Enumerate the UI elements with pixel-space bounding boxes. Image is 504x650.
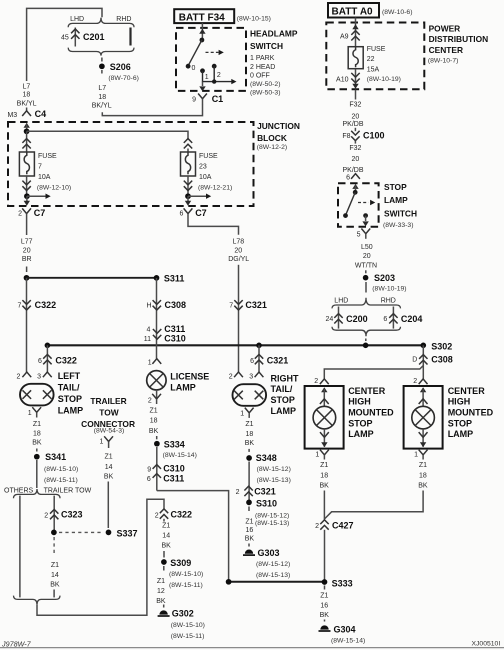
svg-text:7: 7 xyxy=(229,302,233,309)
svg-text:(8W-12-2): (8W-12-2) xyxy=(257,144,287,151)
svg-text:6: 6 xyxy=(147,476,151,483)
brace upper LHD/RHD (C200/C204) xyxy=(332,298,401,309)
svg-text:S309: S309 xyxy=(170,558,191,568)
svg-text:C4: C4 xyxy=(35,109,47,119)
wire right center lamp ground joining left xyxy=(325,491,423,519)
splice junction to S337 xyxy=(51,530,57,536)
svg-text:C311: C311 xyxy=(163,474,184,484)
svg-text:0: 0 xyxy=(192,65,196,72)
svg-text:C308: C308 xyxy=(431,355,453,365)
stop lamp switch contacts xyxy=(352,184,358,189)
svg-text:PK/DB: PK/DB xyxy=(342,167,363,174)
connector C100 pin F8 xyxy=(351,131,359,141)
svg-text:2: 2 xyxy=(148,397,152,404)
svg-text:Z1: Z1 xyxy=(320,462,328,469)
splice S348 xyxy=(246,455,252,461)
svg-text:(8W-15-14): (8W-15-14) xyxy=(331,638,365,645)
svg-text:(8W-10-6): (8W-10-6) xyxy=(382,9,412,16)
svg-text:CENTER: CENTER xyxy=(348,386,386,396)
wire entry arrow into junction block xyxy=(24,123,30,128)
svg-text:XJ00510I: XJ00510I xyxy=(472,641,501,648)
svg-text:S310: S310 xyxy=(256,499,277,509)
svg-text:LICENSE: LICENSE xyxy=(170,372,209,382)
svg-text:MOUNTED: MOUNTED xyxy=(348,408,394,418)
splice S310 xyxy=(246,500,252,506)
component power distribution center box xyxy=(326,23,424,90)
svg-text:6: 6 xyxy=(250,358,254,365)
svg-text:L7: L7 xyxy=(98,85,106,92)
svg-text:1: 1 xyxy=(240,410,244,417)
node fuse 23 output with branch arrow xyxy=(185,193,191,199)
svg-text:(8W-15-13): (8W-15-13) xyxy=(257,477,291,484)
wire RHD branch bar xyxy=(129,28,131,46)
svg-text:C200: C200 xyxy=(346,314,368,324)
wire others branch xyxy=(19,496,21,598)
svg-text:4: 4 xyxy=(146,327,150,334)
svg-text:(8W-15-12): (8W-15-12) xyxy=(257,466,291,473)
svg-text:S348: S348 xyxy=(256,453,277,463)
left center lamp internals xyxy=(321,387,327,392)
svg-text:WT/TN: WT/TN xyxy=(355,262,377,269)
svg-text:DISTRIBUTION: DISTRIBUTION xyxy=(429,34,489,44)
svg-text:Z1: Z1 xyxy=(419,462,427,469)
svg-text:18: 18 xyxy=(246,431,254,438)
svg-text:A9: A9 xyxy=(340,34,349,41)
splice S311 bus xyxy=(24,275,30,281)
svg-text:C1: C1 xyxy=(212,94,224,104)
svg-text:18: 18 xyxy=(419,472,427,479)
node bus right lamp tap xyxy=(256,343,262,349)
svg-text:10A: 10A xyxy=(38,174,51,181)
svg-text:C308: C308 xyxy=(165,300,187,310)
svg-text:BK: BK xyxy=(245,440,255,447)
svg-text:STOP: STOP xyxy=(448,418,472,428)
svg-text:BK: BK xyxy=(104,474,114,481)
svg-text:2: 2 xyxy=(314,378,318,385)
connector C322 pin 6 xyxy=(46,345,48,372)
brace lower others/trailer tow xyxy=(14,596,61,605)
splice S203 xyxy=(363,275,369,281)
svg-text:BK: BK xyxy=(245,535,255,542)
svg-text:(8W-12-21): (8W-12-21) xyxy=(198,185,232,192)
svg-text:(8W-10-7): (8W-10-7) xyxy=(428,57,458,64)
svg-text:LAMP: LAMP xyxy=(384,195,408,205)
wire: top-left feed loop horizontal and verticals xyxy=(27,8,102,81)
svg-text:2: 2 xyxy=(413,378,417,385)
svg-text:Z1: Z1 xyxy=(245,518,253,525)
svg-text:5: 5 xyxy=(357,232,361,239)
splice S206 xyxy=(101,58,103,62)
fuse 22 xyxy=(348,47,363,69)
svg-text:22: 22 xyxy=(367,56,375,63)
wire BATT A0 into PDC xyxy=(355,18,357,47)
svg-text:9: 9 xyxy=(147,466,151,473)
svg-text:BK: BK xyxy=(149,428,159,435)
splice S337 xyxy=(106,530,112,536)
connector C427 pin 2 xyxy=(320,520,328,530)
splice S302 xyxy=(421,343,427,349)
brace lower (C200/C204 to bus) xyxy=(332,327,401,336)
svg-text:C321: C321 xyxy=(254,487,276,497)
svg-text:Z1: Z1 xyxy=(162,522,170,529)
svg-text:CENTER: CENTER xyxy=(448,386,486,396)
svg-text:C322: C322 xyxy=(35,300,57,310)
svg-text:BR: BR xyxy=(22,256,32,263)
svg-text:L77: L77 xyxy=(21,239,33,246)
connector C321 pin 6 xyxy=(258,345,260,372)
svg-text:18: 18 xyxy=(320,472,328,479)
ground G302 xyxy=(158,610,170,616)
svg-text:(8W-15-14): (8W-15-14) xyxy=(163,452,197,459)
svg-text:A10: A10 xyxy=(336,77,349,84)
headlamp switch contacts xyxy=(200,38,205,43)
svg-text:S206: S206 xyxy=(110,62,131,72)
svg-text:7: 7 xyxy=(17,302,21,309)
svg-text:S334: S334 xyxy=(164,439,185,449)
ground G303 xyxy=(243,550,255,556)
svg-text:1: 1 xyxy=(99,439,103,446)
svg-text:BK: BK xyxy=(32,440,42,447)
splice S333 xyxy=(322,579,328,585)
svg-text:BK: BK xyxy=(156,598,166,605)
wire C308 to both center high mounted stop lamps xyxy=(324,366,423,379)
svg-text:F32: F32 xyxy=(349,145,361,152)
wire feed into headlamp switch xyxy=(201,23,203,40)
brace lower (to S206) xyxy=(68,48,134,56)
ground G304 xyxy=(319,625,331,631)
component BATT F34 xyxy=(174,9,234,23)
svg-text:STOP: STOP xyxy=(58,394,82,404)
svg-text:G304: G304 xyxy=(334,625,356,635)
svg-text:16: 16 xyxy=(320,603,328,610)
svg-text:(8W-10-19): (8W-10-19) xyxy=(372,286,406,293)
svg-text:S302: S302 xyxy=(431,341,452,351)
svg-text:D: D xyxy=(412,356,417,363)
svg-text:(8W-12-10): (8W-12-10) xyxy=(37,185,71,192)
svg-text:(8W-15-11): (8W-15-11) xyxy=(44,477,78,484)
svg-text:G302: G302 xyxy=(172,609,194,619)
svg-text:STOP: STOP xyxy=(384,182,407,192)
svg-text:2 HEAD: 2 HEAD xyxy=(250,64,275,71)
svg-text:BATT A0: BATT A0 xyxy=(332,7,374,18)
svg-text:C323: C323 xyxy=(61,510,83,520)
svg-text:C321: C321 xyxy=(245,300,267,310)
connector C311 pin 4 / C310 pin 11 xyxy=(153,329,161,339)
svg-text:20: 20 xyxy=(363,253,371,260)
svg-text:SWITCH: SWITCH xyxy=(384,208,417,218)
svg-text:MOUNTED: MOUNTED xyxy=(448,408,494,418)
svg-text:TRAILER: TRAILER xyxy=(90,396,126,406)
svg-text:BK: BK xyxy=(320,612,330,619)
component BATT A0 xyxy=(328,3,379,18)
svg-text:G303: G303 xyxy=(258,548,280,558)
svg-text:14: 14 xyxy=(105,464,113,471)
svg-text:L78: L78 xyxy=(232,239,244,246)
svg-text:TAIL/: TAIL/ xyxy=(271,384,293,394)
svg-text:6: 6 xyxy=(346,175,350,182)
svg-text:S333: S333 xyxy=(332,579,353,589)
svg-text:10A: 10A xyxy=(199,174,212,181)
svg-text:1: 1 xyxy=(28,410,32,417)
svg-text:BLOCK: BLOCK xyxy=(257,133,287,143)
svg-text:(8W-15-10): (8W-15-10) xyxy=(44,466,78,473)
svg-text:18: 18 xyxy=(33,431,41,438)
svg-text:(8W-10-19): (8W-10-19) xyxy=(367,76,401,83)
component stop lamp switch box xyxy=(338,183,379,227)
svg-text:TRAILER TOW: TRAILER TOW xyxy=(44,487,92,494)
fuse 7 xyxy=(26,131,28,152)
svg-text:18: 18 xyxy=(23,92,31,99)
svg-text:(8W-33-3): (8W-33-3) xyxy=(383,222,413,229)
svg-text:LAMP: LAMP xyxy=(271,406,297,416)
svg-text:FUSE: FUSE xyxy=(199,153,218,160)
svg-text:0 OFF: 0 OFF xyxy=(250,73,270,80)
svg-text:F32: F32 xyxy=(349,102,361,109)
svg-text:14: 14 xyxy=(162,532,170,539)
svg-text:C100: C100 xyxy=(363,131,385,141)
svg-text:2: 2 xyxy=(155,512,159,519)
svg-text:BK: BK xyxy=(418,483,428,490)
svg-text:BK: BK xyxy=(320,483,330,490)
svg-text:7: 7 xyxy=(38,163,42,170)
svg-text:BK/YL: BK/YL xyxy=(92,103,112,110)
connector C310 pin 9 / C311 pin 6 xyxy=(153,465,161,478)
svg-text:C310: C310 xyxy=(163,464,185,474)
svg-text:(8W-15-11): (8W-15-11) xyxy=(169,582,203,589)
lamp left tail/stop lamp xyxy=(20,384,54,406)
component center high mounted stop lamp (left) box xyxy=(305,386,344,449)
node junction block feed split xyxy=(24,128,30,134)
wire L7 18 BK/YL (S206 to switch) xyxy=(101,70,103,74)
svg-text:(8W-15-13): (8W-15-13) xyxy=(256,572,290,579)
svg-text:HEADLAMP: HEADLAMP xyxy=(250,28,298,38)
svg-text:F8: F8 xyxy=(342,133,350,140)
svg-text:(8W-70-6): (8W-70-6) xyxy=(108,75,138,82)
svg-text:2: 2 xyxy=(16,374,20,381)
svg-text:LHD: LHD xyxy=(334,298,348,305)
svg-text:LAMP: LAMP xyxy=(448,429,474,439)
svg-text:LHD: LHD xyxy=(70,16,84,23)
svg-text:20: 20 xyxy=(234,247,242,254)
svg-text:S311: S311 xyxy=(164,274,185,284)
svg-text:FUSE: FUSE xyxy=(38,153,57,160)
svg-text:Z1: Z1 xyxy=(51,562,59,569)
svg-text:OTHERS: OTHERS xyxy=(4,487,34,494)
splice S341 xyxy=(34,454,40,460)
svg-text:6: 6 xyxy=(179,211,183,218)
svg-text:HIGH: HIGH xyxy=(448,397,471,407)
wire license lamp feed from S311 xyxy=(156,278,158,359)
svg-text:TOW: TOW xyxy=(99,407,118,417)
wire F32 20 PK/DB xyxy=(355,90,357,100)
connector C308 pin D xyxy=(422,345,424,365)
splice S334 xyxy=(154,441,160,447)
svg-text:RHD: RHD xyxy=(116,16,131,23)
svg-text:POWER: POWER xyxy=(429,23,461,33)
svg-text:20: 20 xyxy=(352,156,360,163)
svg-text:1: 1 xyxy=(148,359,152,366)
svg-text:FUSE: FUSE xyxy=(367,46,386,53)
wire Z1 14 BK (trailer tow branch) xyxy=(53,537,55,556)
svg-text:H: H xyxy=(147,302,152,309)
svg-text:JUNCTION: JUNCTION xyxy=(257,121,300,131)
pin 2 license lamp xyxy=(156,390,158,399)
svg-text:(8W-15-13): (8W-15-13) xyxy=(255,520,289,527)
svg-text:LAMP: LAMP xyxy=(170,382,196,392)
svg-text:C322: C322 xyxy=(55,355,77,365)
svg-text:3: 3 xyxy=(37,374,41,381)
svg-text:M3: M3 xyxy=(7,112,17,119)
svg-text:C322: C322 xyxy=(171,510,193,520)
svg-text:20: 20 xyxy=(352,114,360,121)
svg-text:6: 6 xyxy=(383,316,387,323)
fuse 23 xyxy=(184,139,192,149)
svg-text:BK: BK xyxy=(50,582,60,589)
svg-text:Z1: Z1 xyxy=(33,421,41,428)
svg-text:12: 12 xyxy=(157,588,165,595)
connector C322 pin 2 xyxy=(160,509,168,519)
footer rule xyxy=(0,647,504,649)
splice S309 xyxy=(161,559,167,565)
svg-text:C7: C7 xyxy=(195,208,207,218)
wire stop lamp feed bus xyxy=(47,344,423,346)
connector C321 pin 2 xyxy=(244,486,252,496)
svg-text:(8W-54-3): (8W-54-3) xyxy=(94,427,124,434)
svg-text:1: 1 xyxy=(315,452,319,459)
svg-text:STOP: STOP xyxy=(271,395,295,405)
svg-text:RHD: RHD xyxy=(381,298,396,305)
svg-text:20: 20 xyxy=(23,247,31,254)
svg-text:9: 9 xyxy=(192,97,196,104)
svg-text:6: 6 xyxy=(38,358,42,365)
svg-text:2: 2 xyxy=(315,523,319,530)
connector C323 pin 2 xyxy=(53,496,55,533)
wire lower ground bus xyxy=(229,581,325,583)
component center high mounted stop lamp (right) box xyxy=(404,386,443,449)
svg-text:RIGHT: RIGHT xyxy=(271,373,300,383)
svg-text:BK/YL: BK/YL xyxy=(17,101,37,108)
wire C7 pin6 jog to L78 column xyxy=(188,214,239,235)
connector C200 pin 24 xyxy=(338,307,340,329)
svg-text:1: 1 xyxy=(414,452,418,459)
svg-text:(8W-15-12): (8W-15-12) xyxy=(255,512,289,519)
svg-text:C204: C204 xyxy=(401,314,423,324)
svg-text:LEFT: LEFT xyxy=(58,371,81,381)
svg-text:Z1: Z1 xyxy=(105,454,113,461)
svg-text:C321: C321 xyxy=(267,355,289,365)
svg-text:S337: S337 xyxy=(117,528,138,538)
svg-text:SWITCH: SWITCH xyxy=(250,41,283,51)
svg-text:DG/YL: DG/YL xyxy=(228,256,249,263)
svg-text:HIGH: HIGH xyxy=(348,397,371,407)
svg-text:BATT F34: BATT F34 xyxy=(179,12,225,23)
svg-text:S203: S203 xyxy=(374,273,395,283)
svg-text:(8W-15-12): (8W-15-12) xyxy=(256,561,290,568)
svg-text:(8W-15-10): (8W-15-10) xyxy=(169,571,203,578)
svg-text:LAMP: LAMP xyxy=(348,429,374,439)
lamp license lamp xyxy=(147,371,166,390)
svg-text:18: 18 xyxy=(150,417,158,424)
connector C201 pin 45 xyxy=(61,28,105,47)
svg-text:(8W-15-10): (8W-15-10) xyxy=(171,622,205,629)
svg-text:14: 14 xyxy=(51,572,59,579)
lamp right tail/stop lamp xyxy=(233,384,267,406)
svg-text:18: 18 xyxy=(98,94,106,101)
svg-text:CENTER: CENTER xyxy=(429,45,463,55)
svg-text:(8W-15-11): (8W-15-11) xyxy=(171,633,205,640)
svg-text:2: 2 xyxy=(44,512,48,519)
brace upper others/trailer tow xyxy=(14,489,61,498)
node bus stop switch feed xyxy=(363,343,369,349)
svg-text:Z1: Z1 xyxy=(150,407,158,414)
right center lamp internals xyxy=(420,387,426,392)
svg-text:S341: S341 xyxy=(45,452,66,462)
svg-text:C310: C310 xyxy=(164,334,186,344)
svg-text:C311: C311 xyxy=(164,324,185,334)
connector C321 pin 7 xyxy=(234,300,242,310)
svg-text:STOP: STOP xyxy=(348,418,372,428)
connector C308 pin H xyxy=(153,300,161,310)
svg-text:(8W-50-3): (8W-50-3) xyxy=(250,89,280,96)
wire license ground to lower bus xyxy=(157,491,229,582)
svg-text:BK: BK xyxy=(162,543,172,550)
node bus left end xyxy=(45,343,51,349)
svg-text:C201: C201 xyxy=(83,32,105,42)
svg-text:L50: L50 xyxy=(361,244,373,251)
brace upper LHD/RHD (C201) xyxy=(68,18,134,28)
node fuse 7 output with branch arrow xyxy=(24,193,30,199)
svg-text:2: 2 xyxy=(18,211,22,218)
svg-text:2: 2 xyxy=(229,374,233,381)
svg-text:2: 2 xyxy=(236,489,240,496)
svg-text:1: 1 xyxy=(205,74,209,81)
svg-text:(8W-10-15): (8W-10-15) xyxy=(237,16,271,23)
svg-text:45: 45 xyxy=(61,34,69,41)
svg-text:C7: C7 xyxy=(34,208,46,218)
svg-text:3: 3 xyxy=(249,374,253,381)
svg-text:PK/DB: PK/DB xyxy=(342,121,363,128)
svg-text:LAMP: LAMP xyxy=(58,405,83,415)
svg-text:C427: C427 xyxy=(332,521,354,531)
wire exit headlamp switch xyxy=(202,82,204,86)
svg-text:23: 23 xyxy=(199,163,207,170)
connector C322 pin 7 xyxy=(26,278,28,372)
svg-text:Z1: Z1 xyxy=(245,421,253,428)
svg-text:24: 24 xyxy=(326,316,334,323)
component junction block dashed box xyxy=(8,122,254,206)
svg-text:11: 11 xyxy=(144,336,151,343)
svg-text:15A: 15A xyxy=(367,67,380,74)
connector C204 pin 6 xyxy=(392,307,394,329)
svg-text:16: 16 xyxy=(246,527,254,534)
svg-text:2: 2 xyxy=(217,72,221,79)
component headlamp switch box xyxy=(176,28,246,91)
wire ground collector to C322 pin2 riser xyxy=(37,499,164,615)
svg-text:TAIL/: TAIL/ xyxy=(58,382,80,392)
svg-text:Z1: Z1 xyxy=(157,578,165,585)
svg-text:Z1: Z1 xyxy=(320,593,328,600)
svg-text:(8W-50-2): (8W-50-2) xyxy=(250,81,280,88)
svg-text:1 PARK: 1 PARK xyxy=(250,55,275,62)
svg-text:L7: L7 xyxy=(23,83,31,90)
